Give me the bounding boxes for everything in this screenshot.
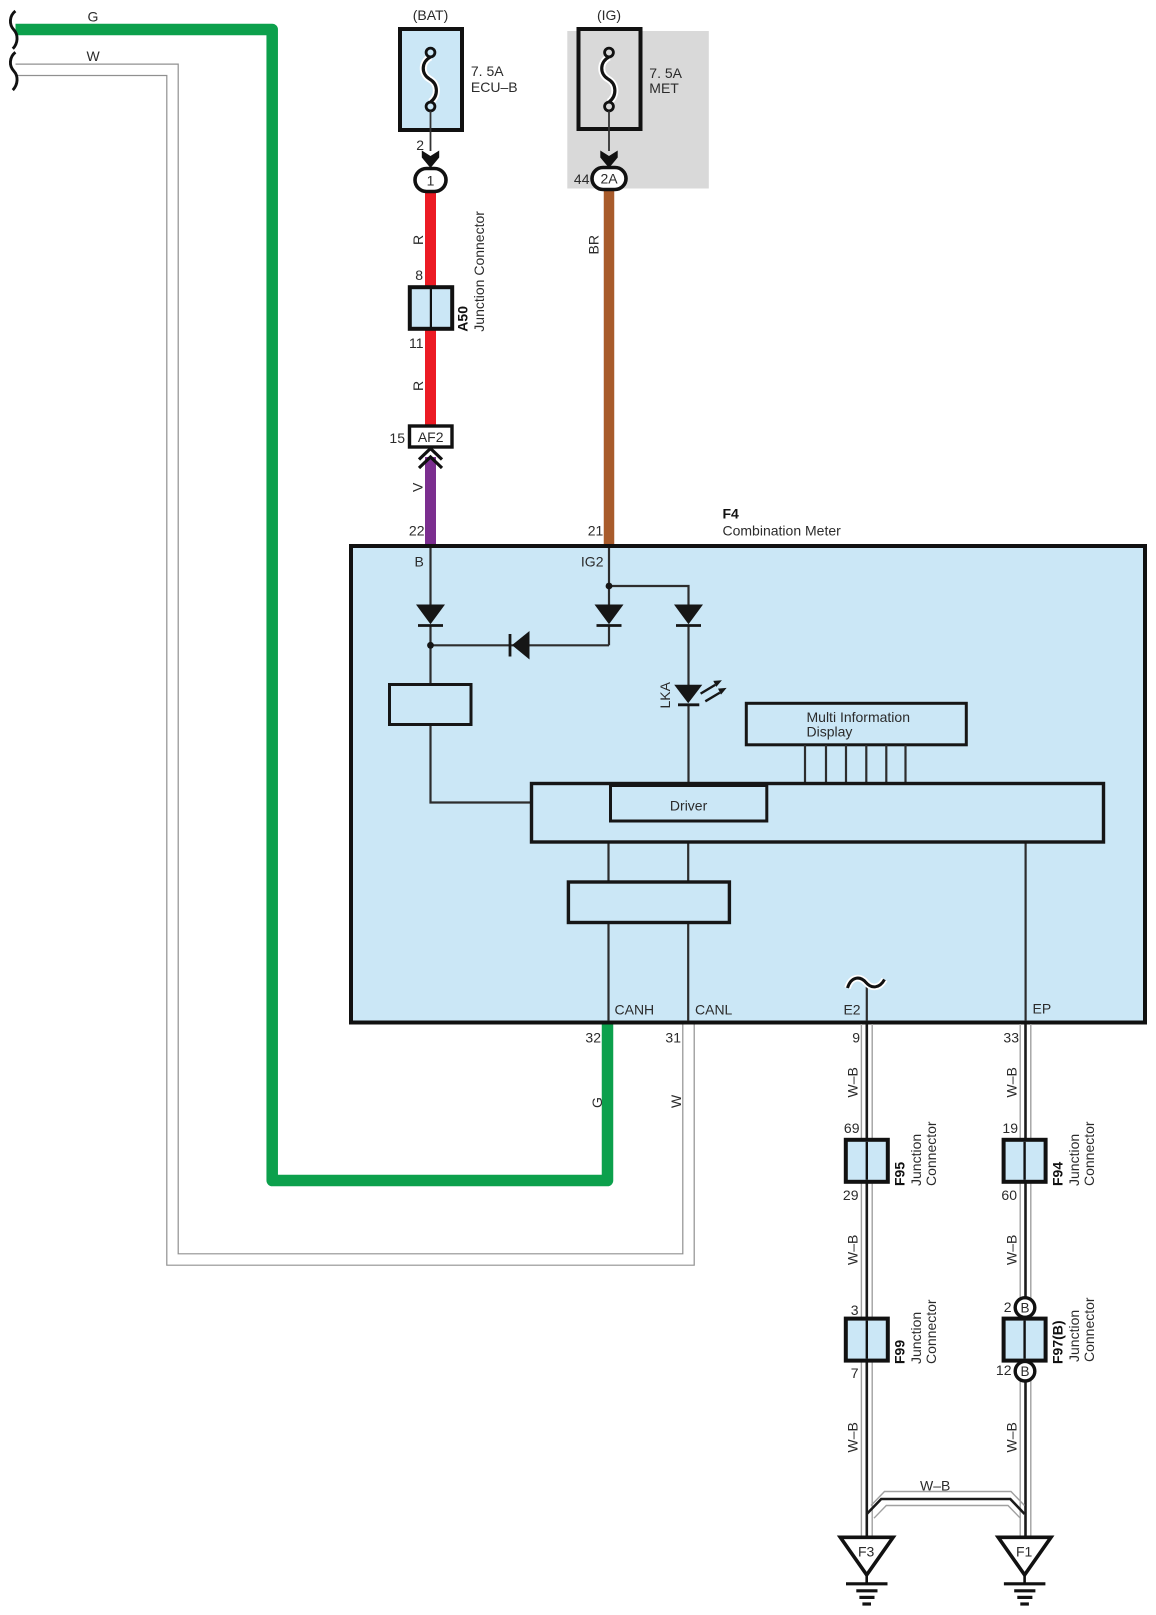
arrow into connector 2A <box>600 151 617 169</box>
junction connector F97(B) <box>1004 1319 1046 1361</box>
svg-text:W–B: W–B <box>1004 1067 1020 1097</box>
svg-text:F97(B): F97(B) <box>1050 1320 1066 1364</box>
svg-text:7. 5A: 7. 5A <box>471 63 504 79</box>
svg-text:W–B: W–B <box>845 1422 861 1452</box>
svg-text:44: 44 <box>574 171 590 187</box>
diode D1 on B line <box>416 605 445 625</box>
svg-text:7: 7 <box>851 1365 859 1381</box>
connector oval 2A <box>592 168 626 190</box>
junction connector F95 <box>846 1140 888 1182</box>
driver inner block <box>611 786 767 822</box>
connector oval 1 <box>415 169 446 192</box>
svg-text:Junction Connector: Junction Connector <box>471 211 487 332</box>
junction connector A50 <box>410 287 452 329</box>
E2 squiggle <box>848 978 885 988</box>
connector circle B lower <box>1015 1361 1035 1381</box>
svg-text:B: B <box>1020 1364 1029 1379</box>
LED to driver <box>687 704 689 785</box>
svg-text:ECU–B: ECU–B <box>471 79 518 95</box>
diode D2 left-pointing <box>512 631 530 660</box>
display bus lines <box>805 745 906 784</box>
svg-text:1: 1 <box>427 173 435 189</box>
svg-text:Driver: Driver <box>670 798 708 814</box>
E2 internal <box>866 984 868 1021</box>
svg-text:60: 60 <box>1001 1187 1017 1203</box>
svg-text:Display: Display <box>807 724 853 740</box>
svg-text:LKA: LKA <box>657 681 673 708</box>
svg-text:8: 8 <box>415 267 423 283</box>
svg-text:2: 2 <box>416 137 424 153</box>
node on IG2 <box>606 583 613 590</box>
CANL internal <box>687 843 689 1021</box>
svg-text:Connector: Connector <box>1081 1121 1097 1186</box>
svg-text:Junction: Junction <box>1066 1134 1082 1186</box>
wire B internal <box>429 548 431 606</box>
svg-text:R: R <box>410 235 426 245</box>
svg-text:33: 33 <box>1003 1030 1019 1046</box>
W-B wire left (E2 ground path) <box>861 1024 872 1537</box>
svg-text:W–B: W–B <box>845 1067 861 1097</box>
svg-text:F4: F4 <box>723 506 740 522</box>
ground F1 <box>998 1537 1051 1575</box>
svg-text:15: 15 <box>389 430 405 446</box>
shield chevrons <box>419 449 442 460</box>
LED LKA <box>674 685 702 704</box>
svg-text:E2: E2 <box>843 1002 860 1018</box>
wire R red <box>425 189 436 429</box>
svg-text:R: R <box>410 381 426 391</box>
svg-text:W–B: W–B <box>1004 1235 1020 1265</box>
svg-text:G: G <box>88 9 99 25</box>
gray relay block background (IG) <box>567 31 709 189</box>
svg-text:W: W <box>87 48 101 64</box>
CAN block <box>568 882 729 923</box>
ground F3 <box>840 1537 893 1575</box>
wire below diode1 to node <box>429 625 431 685</box>
svg-text:IG2: IG2 <box>581 554 604 570</box>
svg-text:W–B: W–B <box>1004 1422 1020 1452</box>
IG2 internal <box>608 548 610 606</box>
svg-text:2A: 2A <box>600 171 618 187</box>
wire BR brown <box>604 187 615 548</box>
diode D4 on branch <box>674 605 703 625</box>
W-B wire right (EP ground path) <box>1020 1024 1031 1537</box>
svg-text:B: B <box>415 554 424 570</box>
svg-text:W–B: W–B <box>845 1235 861 1265</box>
resistor block <box>390 685 472 725</box>
resistor to driver <box>431 724 533 803</box>
diode D3 on IG2 line <box>595 605 624 625</box>
svg-text:EP: EP <box>1033 1001 1052 1017</box>
fuse 7.5A MET (IG) <box>579 29 641 129</box>
svg-text:2: 2 <box>1004 1299 1012 1315</box>
svg-text:BR: BR <box>586 235 602 254</box>
EP internal <box>1024 843 1026 1021</box>
junction connector F99 <box>846 1319 888 1361</box>
svg-text:F99: F99 <box>892 1340 908 1364</box>
svg-text:Junction: Junction <box>908 1134 924 1186</box>
wire G green <box>16 30 608 1181</box>
svg-text:69: 69 <box>844 1120 860 1136</box>
connector AF2 <box>410 426 453 447</box>
svg-text:V: V <box>410 482 426 492</box>
svg-text:Combination Meter: Combination Meter <box>723 523 842 539</box>
svg-text:29: 29 <box>843 1187 859 1203</box>
driver outer block <box>532 784 1104 843</box>
svg-text:Connector: Connector <box>1081 1297 1097 1362</box>
svg-text:A50: A50 <box>455 306 471 332</box>
F4 combination meter box <box>351 546 1145 1023</box>
arrow into connector 1 <box>422 151 439 169</box>
svg-text:12: 12 <box>996 1362 1012 1378</box>
svg-text:9: 9 <box>852 1030 860 1046</box>
W-B horizontal link wires <box>871 1492 1025 1506</box>
connector circle B upper <box>1015 1298 1035 1318</box>
svg-text:Connector: Connector <box>923 1299 939 1364</box>
svg-text:22: 22 <box>409 523 425 539</box>
svg-text:CANH: CANH <box>615 1002 655 1018</box>
break symbol top-left W <box>10 52 17 90</box>
svg-text:G: G <box>589 1097 605 1108</box>
svg-text:19: 19 <box>1002 1120 1018 1136</box>
multi information display box <box>746 703 966 745</box>
node to IG2 horizontal <box>431 644 610 646</box>
svg-text:CANL: CANL <box>695 1002 733 1018</box>
IG2 branch to right <box>609 586 689 606</box>
break symbol top-left G <box>10 11 17 49</box>
CANH internal <box>607 843 609 1021</box>
svg-text:Junction: Junction <box>908 1312 924 1364</box>
svg-text:MET: MET <box>649 80 679 96</box>
below diode3 to LED <box>687 625 689 686</box>
svg-text:21: 21 <box>588 523 604 539</box>
svg-text:F94: F94 <box>1050 1162 1066 1186</box>
svg-text:32: 32 <box>585 1030 601 1046</box>
wire V purple <box>425 457 436 548</box>
junction connector F94 <box>1004 1140 1046 1182</box>
svg-text:B: B <box>1020 1301 1029 1316</box>
svg-text:(IG): (IG) <box>597 7 621 23</box>
svg-text:Connector: Connector <box>923 1121 939 1186</box>
svg-text:F1: F1 <box>1016 1544 1033 1560</box>
svg-text:F95: F95 <box>892 1162 908 1186</box>
svg-text:F3: F3 <box>858 1544 875 1560</box>
svg-text:(BAT): (BAT) <box>413 7 449 23</box>
svg-text:3: 3 <box>851 1302 859 1318</box>
svg-text:AF2: AF2 <box>418 429 444 445</box>
svg-text:W: W <box>668 1094 684 1108</box>
fuse 7.5A ECU-B (BAT) <box>400 29 462 130</box>
svg-text:7. 5A: 7. 5A <box>649 65 682 81</box>
node A junction dot <box>427 642 434 649</box>
svg-text:11: 11 <box>409 335 424 351</box>
wire W white hollow <box>16 70 689 1260</box>
svg-text:31: 31 <box>665 1030 681 1046</box>
svg-text:Junction: Junction <box>1066 1310 1082 1362</box>
